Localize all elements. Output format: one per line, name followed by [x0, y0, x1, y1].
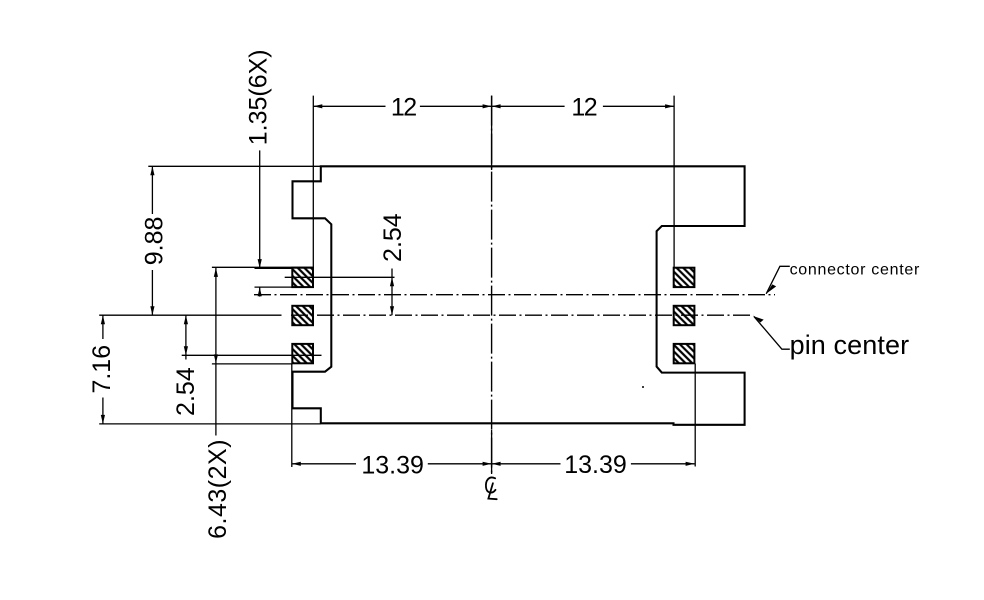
extension line bottom edge y=423.9 [99, 423, 321, 425]
svg-text:7.16: 7.16 [88, 345, 116, 394]
pin center line solid left segment [99, 314, 281, 316]
extension line pad3 center y=355.3 [182, 354, 322, 356]
pad R2 [674, 306, 695, 325]
extension line pad1 top 1.35 y=268.4 [255, 267, 293, 269]
svg-text:1.35(6X): 1.35(6X) [245, 49, 273, 145]
svg-text:6.43(2X): 6.43(2X) [204, 439, 232, 539]
extension line pad1 top y=267.3 [212, 266, 313, 268]
extension line pad1 center y=277.3 [285, 276, 395, 278]
extension line top-left x=313.3 [312, 96, 314, 268]
vertical centerline solid bottom segment [491, 430, 493, 474]
extension line pad1 bottom 1.35 y=287.1 [255, 286, 293, 288]
dimension 2.54 top [391, 269, 393, 316]
pin center line (dash-dot) [291, 314, 754, 316]
svg-text:9.88: 9.88 [140, 217, 168, 266]
svg-text:13.39: 13.39 [564, 451, 627, 479]
connector center line (dash-dot) [254, 294, 775, 296]
connector body outline [293, 166, 745, 425]
stray dot [642, 386, 644, 388]
extension line top edge y=166.3 [148, 165, 320, 167]
leader pin center [754, 316, 790, 349]
leader connector center [766, 266, 790, 294]
svg-text:2.54: 2.54 [379, 213, 407, 262]
dimension line 13.39 bottom [292, 463, 356, 465]
svg-text:13.39: 13.39 [361, 451, 424, 479]
dimension line 12 top [313, 105, 385, 107]
pad L1 [292, 268, 313, 287]
svg-text:2.54: 2.54 [172, 367, 200, 416]
dimension 7.16 [102, 315, 104, 339]
svg-text:pin center: pin center [790, 330, 910, 360]
dimension 6.43(2X) [215, 268, 217, 436]
extension line top-right x=674.1 [673, 96, 675, 268]
dimension 1.35(6X) [259, 150, 261, 268]
centerline symbol [486, 477, 497, 499]
pad R1 [674, 268, 695, 287]
pad L2 [292, 306, 313, 325]
vertical centerline solid top segment [491, 96, 493, 170]
svg-text:12: 12 [391, 94, 416, 122]
dimension 9.88 [151, 166, 153, 214]
extension line pad3 bottom y=363.9 [212, 363, 292, 365]
extension line bottom-right x=695.2 [694, 364, 696, 467]
vertical centerline [491, 96, 493, 474]
dimension 2.54 left [185, 315, 187, 359]
pad L3 [292, 344, 313, 363]
extension line bottom-left x=291.8 [291, 364, 293, 467]
svg-text:connector center: connector center [790, 262, 920, 279]
pad R3 [674, 344, 695, 363]
svg-text:12: 12 [571, 94, 596, 122]
